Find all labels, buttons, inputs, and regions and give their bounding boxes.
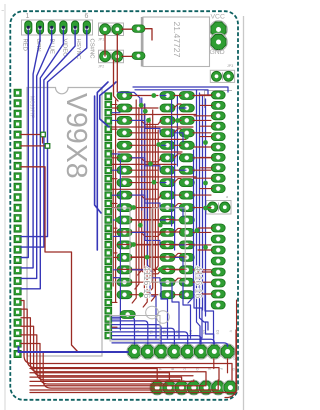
svg-text:6: 6	[85, 13, 89, 20]
wire bundle bottom left (red)	[21, 301, 232, 389]
GND pad	[210, 33, 228, 56]
wire GND run (blue)	[19, 347, 129, 352]
svg-text:GND: GND	[210, 49, 225, 56]
pad Y1.2	[132, 52, 145, 60]
svg-text:V99X8: V99X8	[60, 93, 92, 179]
svg-text:4116-16: 4116-16	[194, 266, 204, 298]
wires J2 risers (blue)	[150, 282, 214, 338]
wire pair top right of U1 (blue)	[95, 82, 116, 250]
IC U1 outline	[27, 88, 102, 357]
svg-text:D3: D3	[215, 330, 219, 334]
vias	[115, 93, 208, 297]
left red stubs and vias	[21, 132, 78, 352]
svg-text:CS#NC: CS#NC	[89, 39, 95, 60]
VCC pad	[210, 14, 228, 39]
oscillator Y1 21.47727	[142, 17, 210, 67]
svg-text:21.47727: 21.47727	[172, 22, 182, 58]
wire bundle mid (blue)	[120, 96, 177, 330]
wire stubs U3 right (red)	[194, 95, 212, 294]
J1 pin labels	[22, 39, 95, 60]
board outline	[10, 11, 238, 400]
pad C7	[120, 311, 135, 319]
socket U3 right pads	[205, 91, 233, 310]
connector J3 octagon pads	[150, 368, 238, 395]
IC U1 left pads	[14, 89, 21, 357]
wire bundle J1 to U1 (blue)	[21, 30, 87, 289]
IC U1 right pads	[105, 93, 112, 339]
socket U3 left pads	[179, 92, 194, 299]
page frame	[0, 0, 246, 410]
svg-text:JP2: JP2	[98, 65, 104, 69]
pad Y1.1	[132, 25, 145, 33]
svg-text:1: 1	[26, 13, 30, 20]
svg-text:JP3: JP3	[227, 64, 233, 68]
connector JP3	[210, 64, 234, 82]
connector J2 octagon pads	[127, 330, 235, 359]
wire fan U1 to J2 (blue)	[112, 317, 228, 346]
svg-text:▪▪: ▪▪	[2, 9, 4, 13]
J3 label	[233, 350, 238, 361]
connector JP4	[206, 195, 231, 214]
wire bundle mid (red)	[113, 100, 158, 307]
svg-text:VCC: VCC	[211, 14, 225, 21]
wire bundle right of U3 (blue)	[188, 90, 214, 344]
svg-text:4116-16: 4116-16	[142, 266, 152, 298]
svg-text:a: a	[226, 195, 228, 199]
svg-text:JP1: JP1	[98, 38, 104, 42]
jumper JP2	[98, 50, 124, 68]
wire rungs between pads (red)	[112, 96, 211, 328]
svg-text:F: F	[219, 368, 223, 370]
socket U2 right pads	[160, 92, 175, 299]
wires JP to sockets (red)	[105, 29, 152, 101]
connector J1 6-pin header	[22, 13, 93, 35]
U3 label 4116	[194, 266, 204, 298]
wire fan to J3 (red)	[30, 300, 237, 393]
socket U2 left pads	[117, 92, 132, 299]
svg-text:RED: RED	[22, 39, 28, 51]
U1 designator	[29, 96, 35, 119]
wire bends mid (blue)	[132, 96, 186, 283]
silkscreen boxes	[110, 208, 185, 341]
U2 label 4116	[142, 266, 152, 298]
jumper JP1	[98, 23, 124, 42]
wires socket top (blue)	[118, 87, 228, 104]
wire corner (red)	[225, 390, 237, 398]
